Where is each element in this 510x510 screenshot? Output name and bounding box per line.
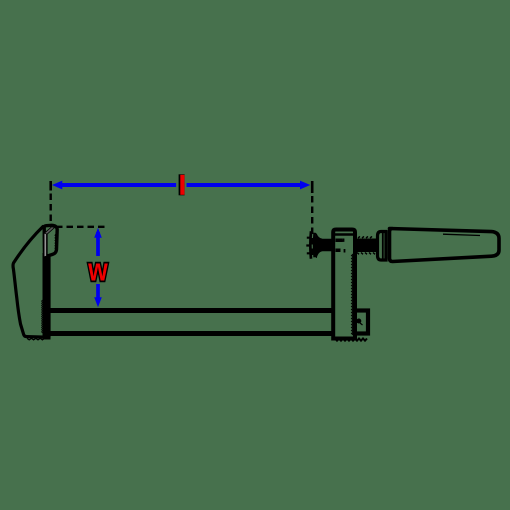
handle top highlight line [443, 234, 480, 235]
svg-text:w: w [87, 252, 108, 288]
dimension w upper arrow [96, 232, 100, 256]
movable jaw cap line [334, 233, 353, 236]
dashed extension line right [311, 196, 313, 258]
dimension w lower arrow [96, 284, 100, 301]
screw shaft left segment [315, 234, 333, 259]
movable jaw bottom serration [335, 339, 367, 341]
cap edge serration [55, 234, 56, 252]
movable jaw body [333, 230, 355, 339]
rail (bar) top edge [49, 308, 340, 313]
dimension l left arrowhead [52, 181, 62, 190]
ferrule inner line [382, 231, 384, 261]
rail end plate pin [356, 319, 361, 324]
fixed jaw pad top bevel [44, 227, 54, 235]
fixed jaw arm body [13, 227, 49, 338]
screw thread marks inside jaw slot [336, 239, 343, 253]
dimension l right arrowhead [300, 181, 310, 190]
screw swivel pad disc [310, 231, 314, 258]
dashed extension line left [50, 194, 52, 227]
extension tick right [311, 181, 314, 193]
fixed jaw top cap [44, 225, 57, 255]
fixed jaw pad gray face [44, 232, 47, 258]
label w [87, 252, 108, 288]
arm bottom serration [27, 338, 45, 340]
fixed jaw face column [43, 253, 51, 340]
label l black outline [179, 174, 185, 195]
threaded rod [355, 239, 377, 253]
handle [390, 229, 500, 262]
dimension l blue line [58, 183, 304, 187]
label l red [180, 175, 184, 195]
rail end plate [352, 311, 368, 334]
swivel pad face ticks [306, 238, 310, 254]
dashed width reference line [56, 226, 108, 228]
movable jaw thread serration [352, 254, 354, 335]
label l knockout [176, 174, 186, 197]
jaw face serration [42, 300, 43, 333]
extension tick left [49, 181, 52, 191]
rail (bar) bottom edge [49, 331, 356, 336]
handle ferrule [378, 232, 387, 261]
